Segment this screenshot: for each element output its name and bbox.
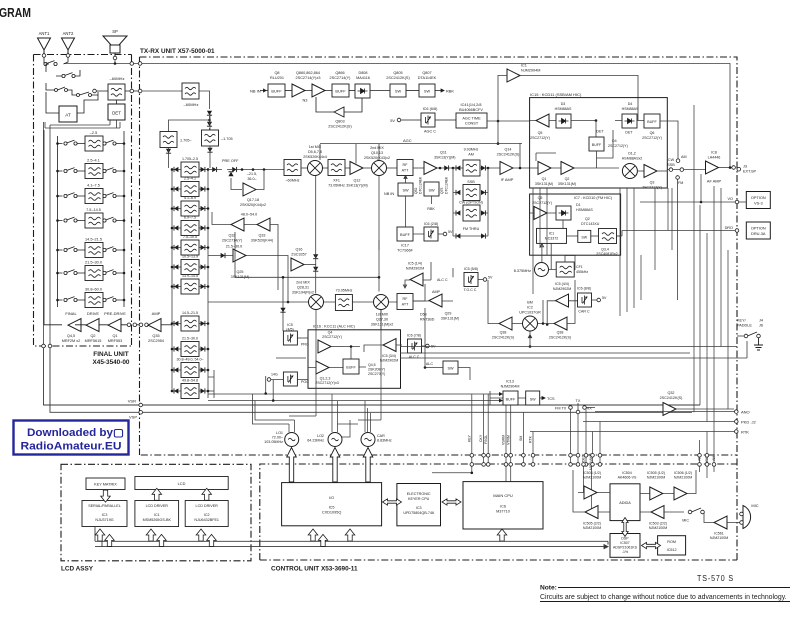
svg-text:30.8–49.0, 54.0–: 30.8–49.0, 54.0–	[177, 358, 204, 362]
svg-text:AMP: AMP	[432, 290, 441, 294]
final amp Q4,5	[62, 311, 81, 343]
svg-text:2SC4081Rx2: 2SC4081Rx2	[596, 252, 617, 256]
arrows drivers to LCD	[152, 488, 162, 500]
svg-text:73.05MHz: 73.05MHz	[328, 184, 345, 188]
svg-text:2SC2714(Y): 2SC2714(Y)	[330, 76, 352, 80]
svg-text:IC505 (1/2): IC505 (1/2)	[647, 471, 665, 475]
svg-text:SW: SW	[402, 189, 409, 193]
svg-text:NJU6432BFE1: NJU6432BFE1	[194, 518, 219, 522]
svg-text:–60MHz: –60MHz	[110, 76, 125, 81]
svg-text:Q1,2,3: Q1,2,3	[320, 377, 331, 381]
double arrow ADIDA-DSP vertical	[622, 518, 628, 537]
rotated labels KEY CKY FSGL VSRM VTRM SM RTK	[467, 434, 532, 445]
svg-text:IC5: IC5	[329, 506, 335, 510]
svg-text:Q14: Q14	[505, 148, 512, 152]
svg-text:IC2: IC2	[527, 306, 533, 310]
svg-text:3SK13(Y)(M): 3SK13(Y)(M)	[434, 156, 456, 160]
svg-text:LCD: LCD	[178, 481, 186, 486]
svg-text:HSM88AS: HSM88AS	[576, 208, 593, 212]
SSB filter	[453, 168, 488, 236]
amp Q1 (IC15)	[530, 121, 561, 187]
svg-text:Q803: Q803	[335, 120, 344, 124]
svg-text:IC506 (1/2): IC506 (1/2)	[674, 471, 692, 475]
svg-text:2SC2954: 2SC2954	[148, 339, 164, 343]
svg-text:FINAL UNIT: FINAL UNIT	[93, 351, 128, 358]
filter row 7.5-14.5	[56, 208, 125, 228]
svg-text:D4: D4	[628, 102, 633, 106]
svg-text:IC503 (1/2): IC503 (1/2)	[583, 471, 601, 475]
1st MIX D5,6,7,8	[301, 145, 327, 294]
svg-text:2SC3357: 2SC3357	[291, 253, 306, 257]
svg-text:Downloaded by▢: Downloaded by▢	[27, 427, 124, 439]
svg-text:PRO: PRO	[301, 343, 309, 347]
DSP block	[610, 534, 640, 558]
wire VSR	[44, 348, 701, 407]
detector D808	[349, 71, 370, 98]
wire TX meter lines	[208, 376, 503, 424]
svg-text:RTK: RTK	[529, 435, 533, 443]
svg-text:NJM2100M: NJM2100M	[649, 526, 667, 530]
svg-text:CONTROL UNIT X53-3690-11: CONTROL UNIT X53-3690-11	[271, 566, 358, 573]
svg-text:IC507: IC507	[620, 541, 629, 545]
svg-text:Q25: Q25	[237, 270, 244, 274]
svg-text:ALC: ALC	[426, 362, 434, 366]
filter row 4.1-7.5	[56, 184, 125, 204]
svg-text:MRF2M x2: MRF2M x2	[62, 339, 81, 343]
CW filter	[453, 201, 488, 222]
svg-text:AGC: AGC	[403, 138, 412, 143]
svg-text:2SC2714(Y): 2SC2714(Y)	[222, 239, 242, 243]
svg-text:Q28,31: Q28,31	[297, 286, 309, 290]
svg-text:UPD75804QB-746: UPD75804QB-746	[403, 511, 434, 515]
KEY MATRIX block	[86, 478, 125, 490]
bus lines	[172, 168, 214, 398]
svg-text:NJM2100M: NJM2100M	[583, 476, 601, 480]
KEY PADDLE J4 J6	[737, 319, 763, 351]
svg-text:SW: SW	[447, 367, 454, 371]
svg-text:SW: SW	[428, 189, 435, 193]
svg-text:NJM2904M: NJM2904M	[501, 385, 520, 389]
svg-text:NB IN: NB IN	[250, 89, 261, 94]
svg-text:Q32: Q32	[668, 391, 675, 395]
svg-text:DTC124EK: DTC124EK	[419, 176, 423, 194]
amp Q1,2,3 (IC16)	[308, 361, 343, 385]
svg-text:Q33: Q33	[259, 234, 266, 238]
svg-text:7.5–10.5: 7.5–10.5	[183, 235, 197, 239]
svg-text:Q1: Q1	[112, 334, 117, 338]
svg-text:36.0–: 36.0–	[247, 177, 257, 181]
amp Q2 (IC15)	[558, 162, 619, 187]
svg-text:Q807: Q807	[422, 71, 431, 75]
amp Q5 (IC7)	[530, 196, 556, 220]
svg-text:Q16: Q16	[296, 248, 303, 252]
svg-text:2nd MIX: 2nd MIX	[296, 281, 310, 285]
ALC SW	[424, 308, 470, 380]
svg-text:5V: 5V	[448, 230, 453, 234]
filter 49.8-54.8	[171, 379, 210, 399]
svg-text:ANT1: ANT1	[39, 31, 50, 36]
svg-text:AMP: AMP	[152, 311, 161, 316]
svg-text:8.375MHz: 8.375MHz	[514, 269, 531, 273]
svg-text:3SK520(K44): 3SK520(K44)	[251, 239, 273, 243]
FET IC6 (8/8) CAR C	[577, 287, 607, 314]
left unit dash-dot box	[34, 55, 132, 347]
svg-text:IC7 : KCD10 (FM HIC): IC7 : KCD10 (FM HIC)	[574, 196, 613, 200]
filter XF1	[323, 160, 345, 188]
svg-text:NJU3719G: NJU3719G	[95, 518, 113, 522]
svg-text:D1,2: D1,2	[628, 152, 636, 156]
svg-text:2SC2412K(S): 2SC2412K(S)	[549, 336, 571, 340]
amps Q32 Q33	[212, 212, 278, 290]
svg-text:LCD DRIVER: LCD DRIVER	[196, 504, 219, 508]
svg-text:NJM2902M: NJM2902M	[406, 267, 424, 271]
svg-text:10.5–13.9: 10.5–13.9	[182, 255, 198, 259]
svg-text:EXT.SP: EXT.SP	[743, 170, 757, 174]
svg-text:–21.5,: –21.5,	[247, 172, 257, 176]
svg-text:IC5 (4/4): IC5 (4/4)	[555, 282, 569, 286]
mic switch	[682, 508, 709, 523]
LCD DRIVER 1	[135, 501, 179, 527]
svg-text:NJM2100M: NJM2100M	[674, 476, 692, 480]
svg-text:5V: 5V	[390, 118, 395, 123]
wires AT DET down	[44, 120, 117, 346]
diode D1 (IC7)	[556, 203, 600, 228]
svg-text:Q75: Q75	[440, 187, 444, 194]
svg-text:Circuits are subject to change: Circuits are subject to change without n…	[540, 594, 787, 601]
filter 1.705-	[160, 132, 193, 148]
svg-text:2SK520(K43)x2: 2SK520(K43)x2	[364, 156, 390, 160]
svg-text:KEY/: KEY/	[737, 319, 747, 323]
svg-text:IC5 (3/4): IC5 (3/4)	[382, 354, 396, 358]
FM filter (IC7)	[596, 229, 620, 257]
svg-text:VS-3: VS-3	[754, 201, 763, 206]
svg-text:–1.705: –1.705	[221, 137, 233, 141]
svg-text:2SC2412K(S): 2SC2412K(S)	[328, 125, 352, 129]
svg-text:14G: 14G	[271, 373, 278, 377]
svg-text:PADDLE: PADDLE	[737, 324, 752, 328]
terminal PKD	[583, 420, 756, 425]
svg-text:14.5–21.5: 14.5–21.5	[85, 238, 102, 242]
svg-text:Q12: Q12	[354, 179, 361, 183]
filter row 2.5-4.1	[56, 159, 125, 179]
svg-text:IC1: IC1	[521, 64, 527, 68]
svg-text:BUFF: BUFF	[647, 120, 657, 124]
5V terminal	[390, 118, 421, 123]
svg-text:2SC2714(Y)x3: 2SC2714(Y)x3	[296, 76, 321, 80]
filter 30.8-49.0,54.0	[171, 358, 210, 378]
svg-text:FSGL: FSGL	[484, 435, 488, 444]
svg-text:2SC2412K(S): 2SC2412K(S)	[386, 76, 410, 80]
svg-text:DTA114EK: DTA114EK	[418, 76, 437, 80]
filter row -2.5	[56, 131, 125, 151]
svg-text:FM: FM	[678, 181, 683, 185]
svg-text:IC17: IC17	[401, 244, 409, 248]
svg-text:CAR C: CAR C	[578, 310, 590, 314]
svg-text:RLU201: RLU201	[270, 76, 284, 80]
IC15 box	[530, 92, 668, 188]
svg-text:HSM88AS: HSM88AS	[555, 107, 572, 111]
svg-text:AF AMP: AF AMP	[707, 179, 722, 184]
svg-text:VO: VO	[728, 197, 734, 201]
svg-text:DRO: DRO	[725, 226, 733, 230]
amp Q12	[345, 144, 368, 188]
option DRU-3A	[617, 222, 771, 239]
svg-text:T.G.C C: T.G.C C	[464, 288, 477, 292]
svg-text:–60MHz: –60MHz	[184, 102, 199, 107]
amp Q38 left	[488, 280, 522, 340]
option VS-3	[640, 192, 770, 209]
svg-text:SSB: SSB	[467, 180, 475, 184]
amp IC5 (4/4)	[546, 282, 578, 326]
svg-text:IC6 (8/8): IC6 (8/8)	[577, 287, 591, 291]
svg-text:DTC124EK: DTC124EK	[445, 176, 449, 194]
svg-text:7.5–14.5: 7.5–14.5	[86, 208, 101, 212]
pre-drive amp Q1	[104, 311, 126, 343]
filter -60MHz (antenna)	[93, 76, 182, 100]
IC1 MC3372 (IC7)	[537, 228, 578, 243]
svg-text:CW (OPTION): CW (OPTION)	[459, 201, 483, 205]
svg-text:AM: AM	[681, 155, 687, 159]
svg-text:PKD .J2: PKD .J2	[741, 420, 756, 425]
svg-text:2.5–4.1: 2.5–4.1	[87, 159, 100, 163]
LO feed wires	[289, 240, 381, 424]
FET IC5 (5/8) TGC	[464, 267, 493, 292]
svg-text:3SK131(M): 3SK131(M)	[558, 182, 576, 186]
svg-text:KEY: KEY	[467, 434, 471, 442]
svg-text:IC512: IC512	[667, 548, 677, 552]
svg-text:J3: J3	[743, 165, 747, 169]
MIC connector	[740, 503, 759, 529]
double arrow IXJ-keyer	[383, 499, 402, 505]
filter -60MHz (IF)	[284, 160, 301, 183]
svg-text:TS-570 S: TS-570 S	[697, 574, 734, 583]
FET 14G POC	[267, 372, 309, 386]
svg-text:2SK520(K44)x2: 2SK520(K44)x2	[240, 203, 266, 207]
svg-text:2SC2412K(S): 2SC2412K(S)	[492, 336, 514, 340]
svg-text:CXD1095Q: CXD1095Q	[322, 511, 341, 515]
relay contacts top	[44, 57, 98, 97]
svg-text:TCS: TCS	[547, 397, 555, 401]
svg-text:IC1: IC1	[549, 232, 555, 236]
amp Q3 (IC15)	[642, 165, 667, 190]
svg-text:GRAM: GRAM	[0, 5, 31, 20]
svg-text:IC505 (2/2): IC505 (2/2)	[583, 522, 601, 526]
svg-text:2SC2712(Y): 2SC2712(Y)	[642, 186, 662, 190]
mid vertical wires from IC15	[533, 188, 655, 316]
svg-text:D1: D1	[576, 203, 581, 207]
svg-text:IC15 : KCD11 (SSB/AM HIC): IC15 : KCD11 (SSB/AM HIC)	[530, 92, 582, 97]
svg-text:TX-RX UNIT X57-5000-01: TX-RX UNIT X57-5000-01	[140, 48, 215, 55]
RF ATT 2	[397, 294, 435, 322]
svg-text:Q4,5: Q4,5	[67, 334, 75, 338]
svg-text:DTC143XU: DTC143XU	[581, 222, 600, 226]
svg-text:1.705–2.5: 1.705–2.5	[182, 157, 198, 161]
svg-text:Q32: Q32	[229, 234, 236, 238]
svg-text:BUFF: BUFF	[506, 398, 516, 402]
svg-text:J6: J6	[759, 324, 763, 328]
ADIDA block	[610, 471, 640, 521]
amp IC5 (3/4)	[364, 339, 402, 363]
double arrow keyer-cpu	[442, 499, 461, 505]
svg-text:21.5–30.0: 21.5–30.0	[226, 245, 242, 249]
diodes below -60MHz	[169, 111, 213, 132]
svg-text:IC2: IC2	[204, 513, 210, 517]
IC16 box	[308, 325, 401, 389]
svg-text:D58: D58	[420, 313, 427, 317]
svg-text:–2.5: –2.5	[90, 131, 97, 135]
svg-text:MA4116: MA4116	[356, 76, 370, 80]
svg-text:3SK131(M)x2: 3SK131(M)x2	[371, 323, 394, 327]
svg-text:2SC2712(Y): 2SC2712(Y)	[532, 201, 552, 205]
svg-text:Q4: Q4	[328, 331, 333, 335]
IC13 BUFF SW TCS	[490, 380, 555, 406]
osc 8.375MHz	[514, 243, 557, 276]
amp IC503 (1/2)	[578, 471, 610, 499]
svg-text:Q8: Q8	[274, 71, 279, 75]
svg-text:DSP: DSP	[621, 537, 629, 541]
LCD ASSY dash-dot box	[61, 464, 251, 561]
svg-text:DRIVE: DRIVE	[87, 311, 100, 316]
svg-text:RNT3BD: RNT3BD	[420, 318, 435, 322]
svg-text:IC5: IC5	[287, 323, 293, 327]
filter -1.705	[202, 113, 233, 146]
svg-text:UPC1037GR: UPC1037GR	[519, 311, 541, 315]
AGC line	[320, 138, 522, 160]
svg-text:2nd MIX: 2nd MIX	[370, 146, 384, 150]
filter 6.9-7.5	[171, 216, 210, 236]
svg-text:VSRM: VSRM	[502, 435, 506, 445]
svg-text:2SC2712(Y): 2SC2712(Y)	[530, 136, 550, 140]
svg-text:21.5–30.0: 21.5–30.0	[85, 261, 102, 265]
svg-text:LCD ASSY: LCD ASSY	[61, 566, 94, 573]
svg-text:IC6 (2/8): IC6 (2/8)	[424, 222, 438, 226]
svg-text:4.1–7.5: 4.1–7.5	[87, 184, 100, 188]
svg-text:IC6: IC6	[500, 505, 506, 509]
switch Q805	[370, 71, 410, 97]
svg-text:3SK194(R)x2: 3SK194(R)x2	[292, 291, 314, 295]
amp Q38 right	[528, 280, 575, 348]
2nd MIX Q10,13	[235, 146, 453, 331]
svg-text:6.9–7.5: 6.9–7.5	[184, 216, 196, 220]
svg-text:IC503 (2/2): IC503 (2/2)	[649, 522, 667, 526]
osc feed lines down to IXJ	[287, 448, 373, 483]
AGC time const block	[456, 103, 530, 128]
amp Q11	[413, 151, 463, 175]
svg-text:Note:: Note:	[540, 585, 557, 592]
svg-text:Q4,5: Q4,5	[368, 363, 376, 367]
svg-text:NJM2100M: NJM2100M	[647, 476, 665, 480]
svg-text:73.05MHz: 73.05MHz	[336, 289, 353, 293]
svg-text:LO1: LO1	[276, 431, 283, 435]
svg-text:J4: J4	[759, 319, 763, 323]
svg-text:CKY: CKY	[479, 434, 483, 442]
svg-text:2SC2712(Y)x3: 2SC2712(Y)x3	[315, 381, 339, 385]
amp Q25	[208, 245, 289, 304]
filter 10.5-13.9	[171, 255, 210, 275]
speaker SP	[103, 29, 127, 60]
svg-text:ELECTRONIC: ELECTRONIC	[407, 492, 431, 496]
svg-text:NJM2100M: NJM2100M	[710, 536, 728, 540]
svg-text:I/O: I/O	[329, 496, 334, 500]
filter 2.5-4.1	[171, 177, 210, 197]
LCD DRIVER 2	[185, 501, 228, 527]
IXJ IC5 CXD1095Q block	[282, 483, 382, 526]
svg-text:OPTION: OPTION	[751, 195, 766, 200]
arrow key matrix to serial	[101, 490, 111, 502]
diodes below 1.705 filters	[166, 146, 213, 168]
ROM block	[658, 536, 686, 555]
svg-text:21.5–30.0: 21.5–30.0	[182, 337, 198, 341]
amp Q16	[291, 248, 318, 272]
svg-text:64.23MHz: 64.23MHz	[307, 439, 324, 443]
svg-text:MIC: MIC	[682, 519, 689, 523]
svg-text:72.00–: 72.00–	[272, 436, 284, 440]
svg-text:FM TX: FM TX	[555, 407, 567, 411]
svg-text:Q52: Q52	[414, 187, 418, 194]
svg-text:3SK131(M): 3SK131(M)	[441, 317, 459, 321]
IC7 box	[530, 194, 621, 255]
antenna ANT1	[38, 31, 51, 57]
osc CAR	[361, 401, 392, 447]
svg-text:8.83MHz: 8.83MHz	[377, 439, 392, 443]
svg-text:DET: DET	[112, 111, 121, 116]
svg-text:BUFF: BUFF	[400, 233, 411, 237]
svg-text:Q29: Q29	[445, 312, 452, 316]
2nd MIX Q28,31	[208, 281, 324, 310]
ELECTRONIC KEYER CPU block	[397, 484, 441, 526]
svg-text:D808: D808	[358, 71, 367, 75]
svg-text:ROM: ROM	[667, 540, 676, 544]
svg-text:Q860,862,864: Q860,862,864	[296, 71, 320, 75]
svg-text:2SC2412K(S): 2SC2412K(S)	[497, 153, 520, 157]
amp Q860 x3	[285, 71, 332, 103]
svg-text:2SC270(Y): 2SC270(Y)	[368, 372, 385, 376]
amp IC1 NJM2904M	[497, 64, 638, 145]
wire speaker to AF line	[64, 60, 730, 170]
SW under RF ATT	[398, 176, 423, 197]
svg-text:1st MIX: 1st MIX	[376, 313, 389, 317]
switch Q807	[406, 71, 454, 97]
svg-text:–60MHz: –60MHz	[285, 179, 299, 183]
svg-text:VSR: VSR	[128, 399, 136, 404]
svg-text:BUFF: BUFF	[271, 89, 282, 94]
bus arrows up	[95, 526, 507, 547]
svg-text:Q3: Q3	[650, 181, 655, 185]
right vertical wires	[668, 105, 728, 455]
svg-text:D5,6,7,8: D5,6,7,8	[308, 150, 322, 154]
control unit dash-dot box	[260, 464, 737, 560]
svg-text:SM: SM	[519, 436, 523, 441]
svg-text:DET: DET	[625, 131, 633, 135]
svg-text:BUFF: BUFF	[335, 89, 346, 94]
svg-text:MAIN CPU: MAIN CPU	[493, 493, 513, 498]
filter 1.705-2.5	[171, 157, 210, 177]
FET IC6 (2/8)	[424, 222, 453, 241]
amp IC561	[704, 513, 740, 540]
svg-text:ADSP21061KS: ADSP21061KS	[613, 546, 638, 550]
wire final chain	[44, 130, 147, 325]
long control lines right	[276, 341, 747, 358]
amp Q17,18	[228, 171, 266, 207]
svg-text:RF: RF	[403, 163, 409, 167]
svg-text:OPTION: OPTION	[751, 226, 766, 231]
amp Q4 (IC16)	[318, 331, 343, 354]
svg-text:NJM2904M: NJM2904M	[521, 69, 540, 73]
svg-text:SP: SP	[112, 29, 118, 34]
drive amp Q2	[85, 311, 102, 343]
svg-text:RadioAmateur.EU: RadioAmateur.EU	[21, 441, 122, 453]
FM TX RX terminals	[555, 399, 595, 414]
